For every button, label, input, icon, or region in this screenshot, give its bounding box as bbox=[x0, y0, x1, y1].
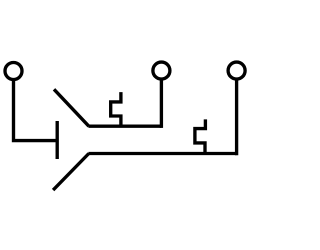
wire: P1 stem down and right to actuator bbox=[14, 80, 56, 141]
wire: P3 stem bbox=[235, 79, 238, 155]
pushbutton actuator bar bbox=[56, 121, 59, 159]
terminal circle P1 (left pin) bbox=[5, 63, 22, 80]
wire: pole 1 contact to P2 stem bbox=[88, 125, 161, 128]
terminal circle P2 (middle pin) bbox=[153, 62, 170, 79]
latching-step symbol on pole 1 wire bbox=[111, 92, 121, 126]
wire: pole 2 contact to P3 stem bbox=[88, 152, 236, 155]
switch contact arm, pole 1 (open) bbox=[54, 89, 89, 126]
latching-step symbol on pole 2 wire bbox=[195, 119, 206, 153]
wire: P2 stem bbox=[160, 79, 163, 128]
switch contact arm, pole 2 (open) bbox=[53, 154, 89, 191]
terminal circle P3 (right pin) bbox=[228, 62, 245, 79]
